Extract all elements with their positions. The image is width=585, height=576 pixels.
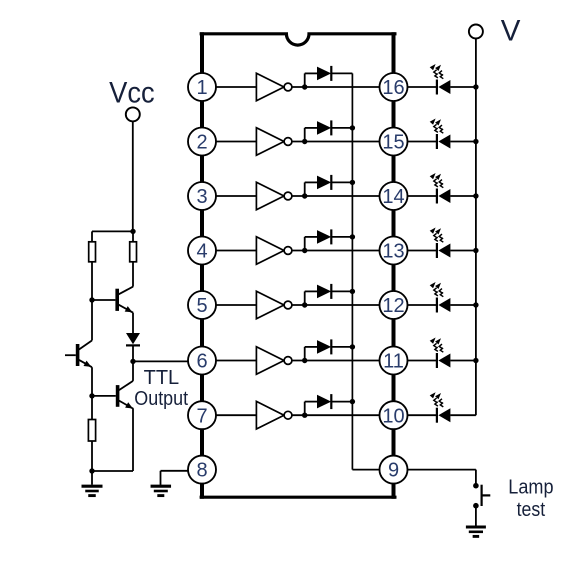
svg-text:TTL: TTL [144, 367, 180, 389]
svg-text:5: 5 [196, 295, 207, 317]
svg-text:12: 12 [382, 295, 404, 317]
svg-text:15: 15 [382, 132, 404, 154]
svg-text:13: 13 [382, 241, 404, 263]
svg-text:11: 11 [383, 351, 404, 373]
svg-text:9: 9 [388, 460, 399, 482]
svg-text:14: 14 [382, 186, 404, 208]
svg-text:Lamp: Lamp [508, 477, 553, 499]
svg-text:V: V [501, 14, 521, 47]
svg-text:7: 7 [196, 405, 207, 427]
svg-text:2: 2 [196, 132, 207, 154]
svg-text:3: 3 [196, 186, 207, 208]
svg-text:16: 16 [382, 77, 404, 99]
svg-text:8: 8 [196, 460, 207, 482]
svg-text:1: 1 [196, 77, 207, 99]
svg-text:10: 10 [382, 405, 404, 427]
svg-text:Vcc: Vcc [109, 76, 155, 109]
svg-text:test: test [517, 499, 546, 521]
svg-text:4: 4 [196, 241, 207, 263]
svg-text:6: 6 [196, 351, 207, 373]
svg-text:Output: Output [134, 388, 188, 410]
